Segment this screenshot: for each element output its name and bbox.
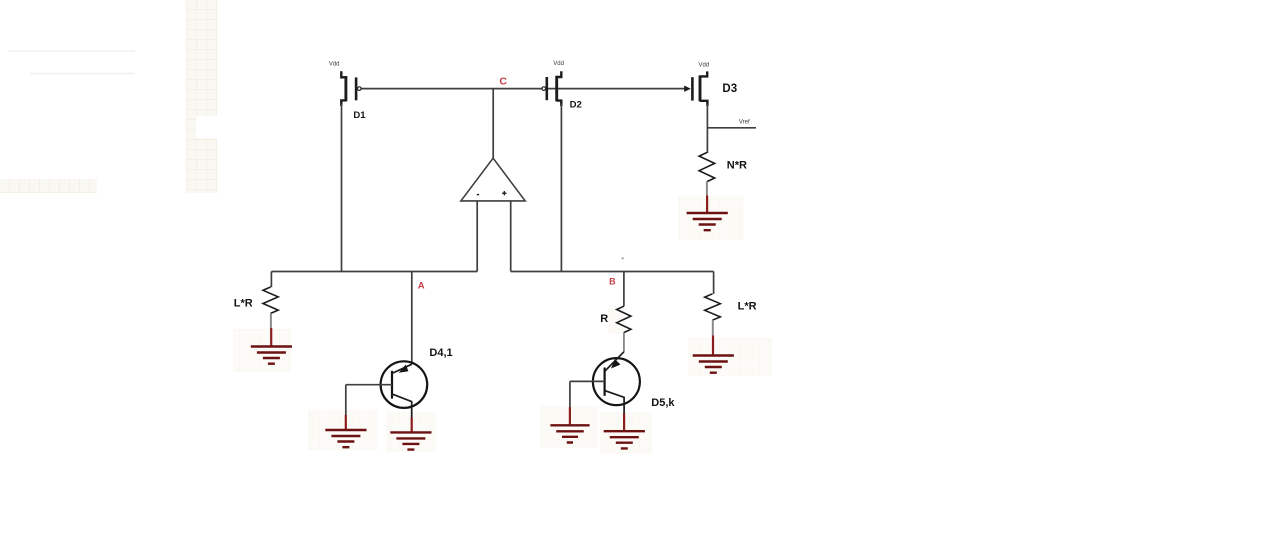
D1 source/drain bracket	[341, 71, 346, 106]
op-amp U1	[461, 89, 525, 201]
transistor D2 (PMOS, gate left)	[542, 71, 561, 106]
ground (D5 collector)	[604, 414, 645, 449]
D1 gate bubble	[358, 87, 362, 91]
D5 circle	[593, 358, 640, 405]
ground (below left L*R)	[251, 328, 292, 364]
wire: D5 base wire	[570, 380, 605, 382]
wire: D2 drain down to node B bus	[560, 104, 562, 272]
wire: Vref tap	[707, 127, 756, 129]
faint grid patches (background remnants)	[0, 0, 217, 193]
svg-text:Vdd: Vdd	[699, 62, 710, 68]
faint patches behind grounds (decorative)	[233, 196, 772, 454]
svg-text:Vref: Vref	[739, 120, 750, 126]
op-amp triangle	[461, 158, 525, 201]
D2 gate bar	[545, 77, 548, 100]
D4 base bar	[391, 371, 393, 399]
D2 source/drain leads	[557, 71, 562, 106]
resistor R	[617, 306, 631, 352]
wire: D4 base wire	[346, 384, 392, 386]
wire: op-amp inverting input lead	[476, 201, 478, 272]
ground (D4 collector)	[390, 418, 431, 450]
D4 emitter diagonal	[393, 364, 412, 373]
D3 gate bar	[691, 77, 694, 100]
transistor D5,k (PNP BJT)	[593, 352, 640, 415]
svg-text:D2: D2	[570, 100, 582, 111]
op-amp output wire to node C	[492, 89, 494, 159]
wire: node A bus	[271, 271, 477, 273]
D2 gate bubble	[542, 87, 546, 91]
wire: op-amp non-inverting input lead	[510, 201, 512, 272]
svg-text:R: R	[600, 313, 608, 325]
D4 emitter arrow	[399, 365, 409, 373]
ground (D4 base)	[325, 415, 366, 447]
D1 channel bar	[344, 76, 347, 101]
D2 channel bar	[555, 76, 558, 102]
D5 emitter diagonal	[605, 352, 624, 371]
svg-text:D5,k: D5,k	[651, 397, 675, 409]
svg-text:Vdd: Vdd	[553, 61, 564, 67]
D3 source/drain leads	[700, 71, 707, 106]
op-amp minus sign	[477, 194, 479, 196]
svg-text:A: A	[418, 280, 425, 291]
wire: node A down to D4 emitter	[411, 272, 413, 365]
wire: gate net from D1 gate to D3 gate (node C net)	[360, 88, 685, 90]
svg-text:D1: D1	[353, 110, 366, 121]
ground (below right L*R)	[693, 336, 734, 373]
svg-text:D3: D3	[722, 83, 737, 95]
D1 gate bar	[355, 77, 358, 100]
resistor N*R	[699, 153, 715, 197]
D4 collector diagonal	[393, 394, 412, 418]
svg-text:L*R: L*R	[234, 298, 253, 310]
transistor D4,1 (PNP BJT)	[381, 361, 428, 418]
transistor D1 (PMOS, mirrored: channel left, gate right)	[341, 71, 361, 106]
D5 collector diagonal	[605, 391, 624, 415]
D5 base bar	[603, 368, 605, 396]
wire: D1 drain down to node A bus	[341, 104, 343, 272]
svg-text:L*R: L*R	[738, 301, 757, 313]
wire: D3 drain down to N*R	[706, 104, 708, 153]
wire: D5 base to ground	[569, 381, 571, 408]
node C (junction of op-amp output with gate net)	[499, 75, 507, 87]
op-amp plus sign	[502, 191, 506, 195]
transistor D3 (PMOS, gate left)	[684, 71, 707, 106]
svg-text:Vdd: Vdd	[329, 62, 340, 68]
D4 circle	[381, 361, 428, 408]
wire: node B down to resistor R	[623, 272, 625, 307]
svg-text:D4,1: D4,1	[429, 347, 452, 359]
resistor L*R (right)	[705, 272, 721, 337]
wire: node B bus	[511, 271, 714, 273]
D5 emitter arrow	[611, 359, 621, 368]
svg-text:N*R: N*R	[727, 160, 747, 172]
junction dot above node B bus	[622, 257, 624, 259]
resistor L*R (left)	[263, 272, 278, 329]
ground (below N*R)	[687, 196, 728, 231]
ground (D5 base)	[550, 407, 589, 442]
D3 gate arrow bubble	[684, 86, 691, 92]
svg-text:B: B	[609, 276, 616, 286]
D3 channel bar	[699, 75, 702, 101]
wire: D4 base to ground	[345, 385, 347, 416]
svg-text:C: C	[499, 75, 507, 87]
